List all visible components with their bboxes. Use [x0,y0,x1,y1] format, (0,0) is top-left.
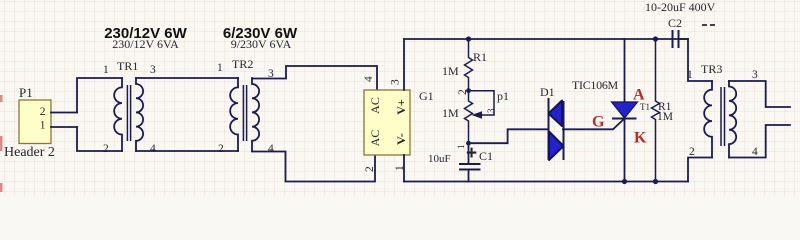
diac D1 upper diode triangle pointing left [549,101,563,127]
svg-text:1M: 1M [442,64,459,78]
svg-text:2: 2 [103,143,109,155]
svg-text:AC: AC [368,130,382,147]
thyristor T1 cathode wire to bottom rail [624,119,626,182]
diac D1 right bar [563,101,565,160]
svg-text:2: 2 [457,89,469,95]
svg-text:3: 3 [150,64,156,76]
svg-text:G: G [592,114,605,131]
capacitor C1 top plate [459,163,481,165]
wire bottom rail [404,181,688,183]
capacitor C1 bottom plate [459,169,481,171]
svg-text:3: 3 [752,69,758,81]
node junction bottom rail at cathode [622,179,627,184]
svg-text:C2: C2 [668,16,682,30]
diac D1 left bar [548,98,550,160]
transformer TR2 secondary winding [252,78,259,151]
node junction top rail at R1 divider [466,36,471,41]
svg-text:1: 1 [687,69,693,81]
capacitor C2 right plate [678,30,680,48]
svg-text:2: 2 [40,106,46,118]
transformer TR3 primary winding [704,81,712,158]
svg-text:V-: V- [394,133,408,145]
node junction top rail at bleeder [653,36,658,41]
svg-text:4: 4 [268,143,274,155]
wire TR1 pin3 to TR2 pin1 [136,77,238,79]
svg-text:4: 4 [752,146,758,158]
node junction bottom rail at bleeder [653,179,658,184]
transformer TR2 core [243,85,246,141]
svg-text:P1: P1 [19,85,33,100]
capacitor C1 lead bottom [468,170,470,182]
svg-text:3: 3 [486,108,496,113]
svg-text:K: K [634,130,647,147]
svg-text:p1: p1 [497,89,509,103]
resistor R1 bleeder [652,39,660,182]
transformer TR1 secondary winding [136,78,143,151]
wire P1 pin1 to TR1 pin2 [77,127,122,151]
svg-text:TIC106M: TIC106M [572,78,619,92]
svg-text:2: 2 [689,146,695,158]
bridge pin 1 stub to bottom rail [403,155,405,182]
wire bottom rail corner to TR3 pin 2 [688,158,712,182]
svg-text:1M: 1M [442,106,459,120]
connector P1 body [19,100,51,144]
wire TR3 pin3 to spark gap top [729,81,790,107]
wire top rail [404,38,688,40]
svg-text:V+: V+ [394,99,408,115]
svg-text:9/230V 6VA: 9/230V 6VA [231,37,292,51]
node junction at pot bottom gate takeoff [466,141,471,146]
svg-text:1: 1 [217,62,223,74]
transformer TR3 core [721,87,725,146]
svg-text:C1: C1 [479,149,493,163]
svg-text:Header 2: Header 2 [4,145,55,160]
transformer TR1 core [127,85,130,141]
wire TR1 pin4 to TR2 pin2 [136,150,238,152]
transformer TR2 primary winding [230,78,238,151]
wire pot bottom to diac D1 [469,129,549,143]
sheet border red mark left 1 [0,95,3,102]
diac D1 lower diode triangle pointing right [549,132,564,161]
thyristor T1 cathode bar [612,118,637,120]
svg-text:1: 1 [40,120,46,132]
sheet border red mark left 3 [0,183,3,192]
svg-text:10uF: 10uF [428,153,451,165]
svg-text:TR3: TR3 [701,62,722,76]
svg-text:3: 3 [390,79,402,85]
wire TR2 pin4 to bridge pin2 [252,152,375,182]
svg-text:1: 1 [456,145,466,150]
potentiometer p1 wiper loop wire [469,91,495,115]
capacitor C1 lead top [468,143,470,164]
connector P1 pin 1 stub [51,126,77,128]
svg-text:A: A [633,87,645,104]
thyristor T1 triangle [612,102,638,118]
svg-text:10-20uF 400V: 10-20uF 400V [645,0,716,14]
connector P1 pin 2 stub [51,112,77,114]
wire diac D1 to thyristor gate [563,119,625,130]
artifact dashes near C2 [702,24,715,26]
capacitor C2 left plate [672,30,674,48]
bridge pin 3 stub to top rail [403,39,405,90]
svg-text:R1: R1 [473,50,487,64]
svg-text:230/12V 6VA: 230/12V 6VA [112,37,179,51]
wire C2 to TR3 pin 1 [679,39,713,81]
transformer TR3 secondary winding [729,81,736,158]
svg-text:2: 2 [218,143,224,155]
bridge rectifier G1 body [364,90,410,155]
thyristor T1 anode wire from top rail [624,39,626,102]
potentiometer p1 wiper arrow [472,111,483,119]
svg-text:1: 1 [103,64,109,76]
svg-text:AC: AC [368,97,382,114]
resistor R1 divider [465,39,473,91]
wire TR3 pin4 to spark gap bottom [729,125,790,158]
wire P1 pin2 to TR1 pin1 [77,78,122,113]
svg-text:G1: G1 [419,89,434,103]
node junction at pot top [466,88,471,93]
svg-text:TR2: TR2 [232,57,253,71]
svg-text:2: 2 [364,166,376,172]
svg-text:D1: D1 [540,85,555,99]
sheet border red mark left 2 [0,136,3,151]
svg-text:TR1: TR1 [117,59,138,73]
svg-text:4: 4 [363,76,375,82]
wire TR2 pin3 to bridge pin4 [252,66,377,90]
potentiometer p1 resistor body [465,91,473,144]
transformer TR1 primary winding [114,78,122,151]
svg-text:T1: T1 [640,102,650,112]
svg-text:4: 4 [150,143,156,155]
